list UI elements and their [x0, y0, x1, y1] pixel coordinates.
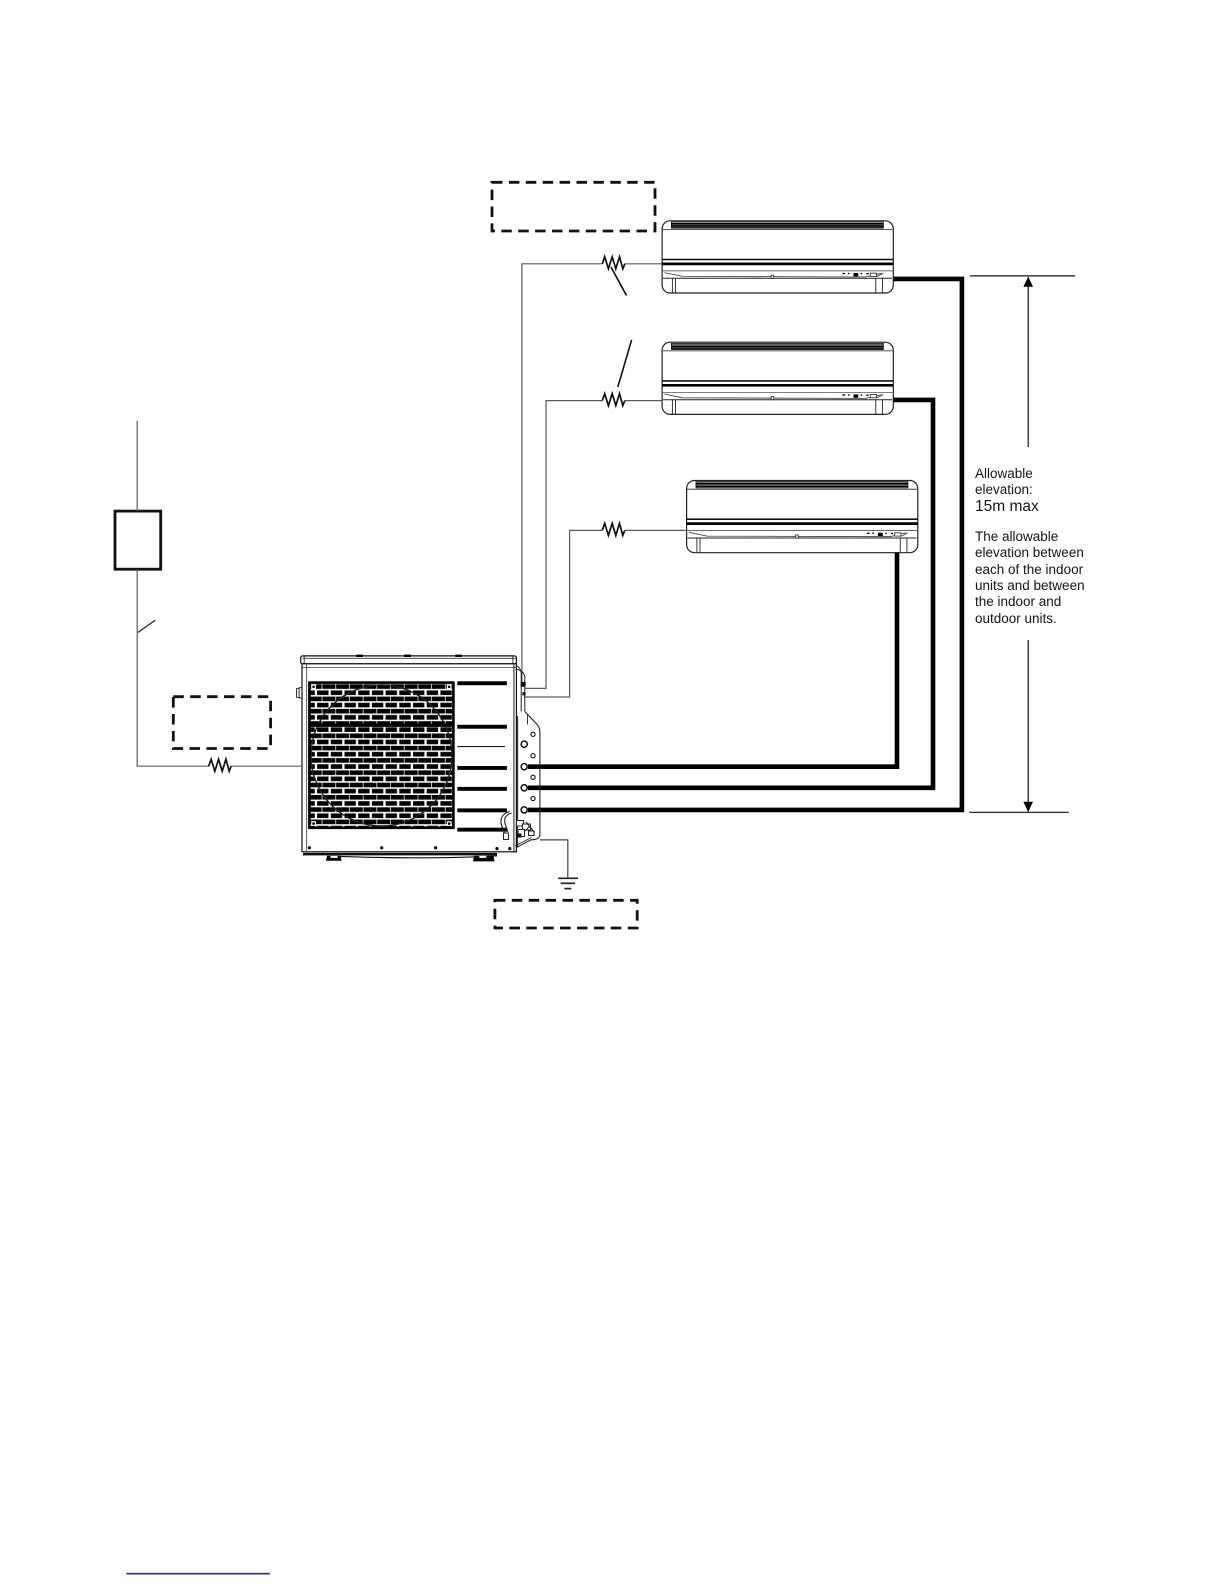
top dashed label box	[492, 182, 655, 231]
outdoor unit top cap	[301, 656, 517, 664]
wire W3 indoor unit C	[524, 530, 686, 697]
dimension line lower	[1027, 640, 1029, 812]
indoor unit B	[662, 342, 893, 414]
dimension bottom tick	[969, 811, 1068, 813]
refrigerant pipe P2	[528, 400, 933, 788]
terminal connector 2	[522, 692, 525, 695]
arrowhead down	[1023, 802, 1033, 812]
elevation note	[975, 529, 1085, 627]
left handle	[297, 687, 302, 698]
dimension top tick	[970, 275, 1076, 277]
refrigerant pipe P3	[528, 553, 897, 767]
elevation label	[975, 466, 1033, 499]
side flange	[517, 716, 519, 848]
side vent bars	[457, 681, 507, 685]
left foot	[326, 856, 342, 861]
indoor unit A	[662, 221, 893, 293]
outdoor unit body	[302, 664, 516, 852]
flange small holes	[531, 732, 535, 736]
refrigerant pipe P1	[528, 279, 962, 810]
ground wire	[540, 840, 568, 878]
break slash on wire W2	[618, 340, 632, 387]
right foot	[473, 856, 495, 862]
wire W1 indoor unit A	[522, 264, 662, 683]
bottom pan	[303, 853, 497, 856]
ground symbol	[558, 877, 578, 879]
break slash on power wire	[138, 620, 155, 632]
fan circle	[311, 685, 452, 826]
pipe connection ports	[521, 741, 527, 747]
bottom dashed label box	[495, 900, 637, 928]
terminal conduit at top right	[516, 666, 521, 712]
power supply box	[115, 511, 161, 569]
wire W2 indoor unit B	[525, 401, 661, 689]
dimension line upper	[1027, 277, 1029, 447]
left dashed label box	[173, 697, 270, 749]
grille rail	[311, 724, 453, 727]
outdoor unit	[297, 655, 540, 862]
power wire	[136, 421, 138, 511]
screws	[308, 846, 311, 849]
terminal connector 1	[521, 682, 526, 687]
arrowhead up	[1023, 277, 1033, 287]
indoor unit C	[686, 481, 917, 553]
grille corner marks	[311, 684, 316, 689]
service valves	[501, 812, 510, 839]
break slash on wire W1	[611, 267, 627, 296]
fan grille	[309, 683, 453, 828]
page footer rule	[126, 1573, 269, 1575]
